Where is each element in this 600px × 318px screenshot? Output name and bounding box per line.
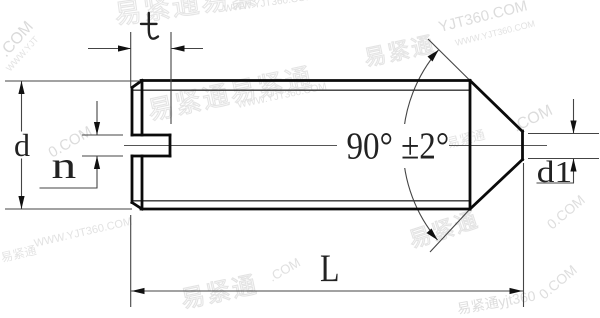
t dim line right tail xyxy=(172,48,204,50)
d1 top arrow line xyxy=(573,99,575,134)
L left extension line xyxy=(130,215,132,307)
cone bottom edge xyxy=(470,160,523,210)
slot top edge xyxy=(132,134,170,137)
svg-text:d1: d1 xyxy=(537,155,572,189)
L arrow left (points left) xyxy=(132,288,145,294)
bottom edge xyxy=(141,208,470,211)
d1 leader under label xyxy=(537,182,575,184)
n top arrow line xyxy=(96,101,98,135)
d1 arrow bottom (points up) xyxy=(570,159,576,172)
left face upper xyxy=(131,88,134,136)
t left extension line xyxy=(130,32,132,87)
t right extension line xyxy=(170,32,172,124)
svg-text:90° ±2°: 90° ±2° xyxy=(347,124,450,167)
d dim line upper xyxy=(21,82,23,132)
label t xyxy=(141,13,158,39)
svg-text:L: L xyxy=(320,246,339,290)
arc arrow top xyxy=(428,50,439,62)
thread relief line top xyxy=(133,89,469,91)
cone tip flat xyxy=(521,131,524,160)
chamfer edge lower xyxy=(141,156,144,209)
d dim line lower xyxy=(21,159,23,209)
d top extension line xyxy=(5,80,140,82)
arc arrow bottom xyxy=(427,229,438,241)
n arrow bottom (points up) xyxy=(94,156,100,169)
d1 bottom arrow line xyxy=(573,159,575,184)
t dimension xyxy=(88,32,203,124)
n dimension xyxy=(40,101,124,188)
cone top edge xyxy=(470,81,523,132)
svg-text:d: d xyxy=(14,127,30,163)
n bottom extension line xyxy=(82,155,123,157)
90-degree dimension arc xyxy=(403,50,439,240)
top edge xyxy=(141,79,470,82)
cone edge extension bottom xyxy=(430,209,470,252)
top-left chamfer xyxy=(132,81,142,88)
slot lower edge xyxy=(132,155,170,158)
bottom-left chamfer xyxy=(132,203,142,210)
d1 bottom extension line xyxy=(528,158,599,160)
cone edge extension top xyxy=(428,39,470,81)
n leader under label xyxy=(40,187,98,189)
white mask behind angle text xyxy=(337,124,449,168)
d1 top extension line xyxy=(528,133,599,135)
L dimension xyxy=(131,163,524,307)
d dimension xyxy=(5,81,140,209)
t arrow left (points right) xyxy=(118,45,131,51)
center line xyxy=(124,145,547,147)
chamfer edge upper xyxy=(141,81,144,136)
body right end xyxy=(469,81,472,210)
screw body outline xyxy=(132,81,523,210)
left face lower xyxy=(131,156,134,203)
L arrow right (points right) xyxy=(510,288,523,294)
d arrow top (points up) xyxy=(18,81,24,94)
d arrow bottom (points down) xyxy=(18,196,24,209)
L right extension line xyxy=(523,163,525,307)
d1 dimension xyxy=(528,99,599,183)
d bottom extension line xyxy=(5,208,132,210)
n bottom arrow line xyxy=(96,156,98,188)
t dim line left tail xyxy=(88,48,131,50)
n top extension line xyxy=(82,134,123,136)
svg-text:n: n xyxy=(52,144,77,186)
t arrow right (points left) xyxy=(172,45,185,51)
thread relief line bottom xyxy=(133,200,469,202)
L dim line xyxy=(131,290,523,292)
d1 arrow top (points down) xyxy=(570,121,576,134)
n arrow top (points down) xyxy=(94,122,100,135)
slot bottom wall xyxy=(169,135,172,156)
